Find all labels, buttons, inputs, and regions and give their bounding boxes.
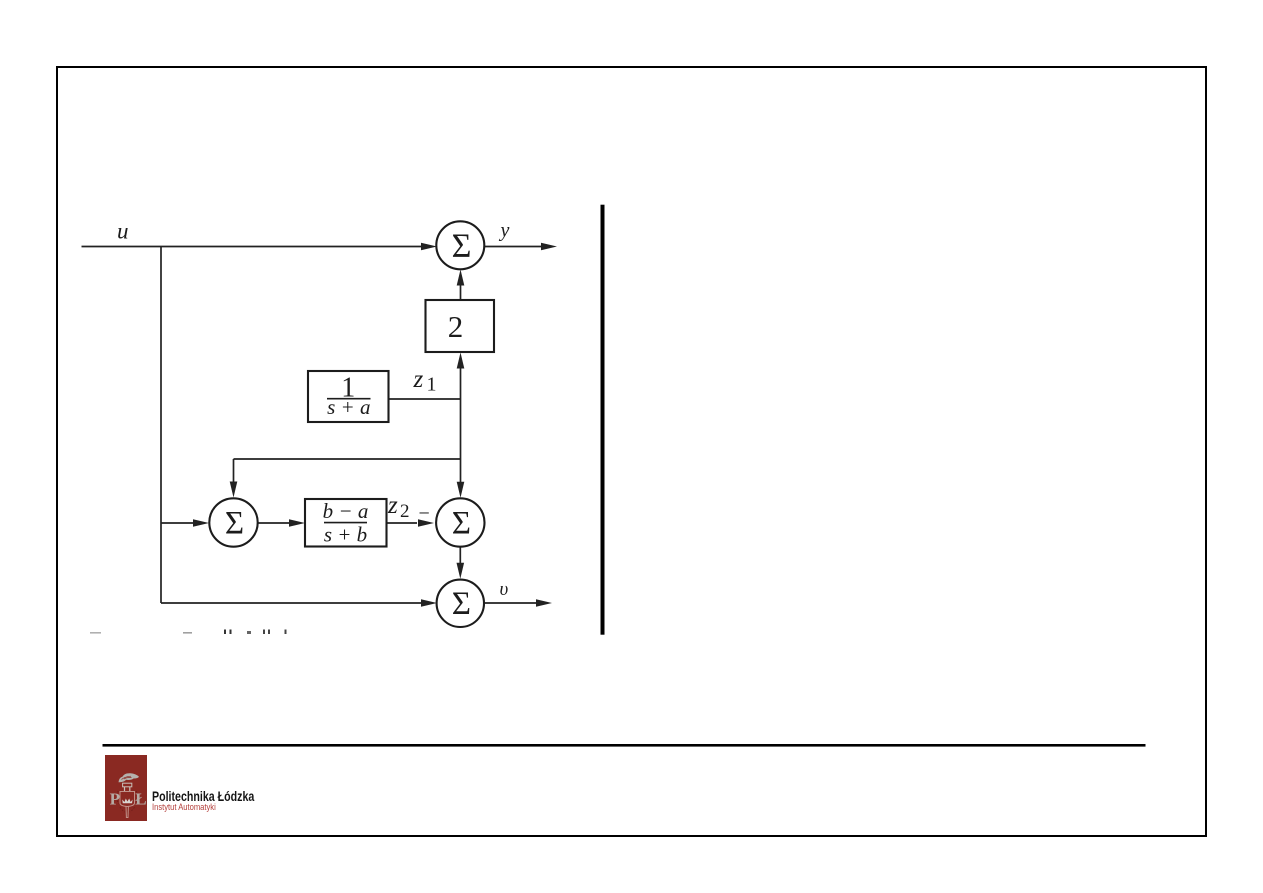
svg-text:−: −: [419, 503, 430, 525]
svg-text:s + b: s + b: [324, 523, 367, 547]
svg-text:z: z: [387, 492, 398, 519]
svg-text:Ł: Ł: [135, 789, 146, 808]
svg-text:Σ: Σ: [452, 586, 471, 622]
svg-text:s + a: s + a: [327, 395, 370, 419]
svg-text:Σ: Σ: [452, 506, 471, 542]
svg-text:Σ: Σ: [225, 506, 244, 542]
svg-text:u: u: [117, 219, 129, 244]
svg-text:z: z: [413, 366, 424, 393]
svg-text:Σ: Σ: [452, 228, 472, 265]
svg-text:y: y: [499, 220, 510, 242]
svg-text:υ: υ: [500, 579, 509, 600]
svg-text:b − a: b − a: [323, 499, 369, 523]
svg-text:2: 2: [448, 309, 464, 344]
svg-text:P: P: [109, 789, 119, 808]
svg-text:2: 2: [400, 501, 410, 522]
svg-text:1: 1: [427, 374, 437, 396]
